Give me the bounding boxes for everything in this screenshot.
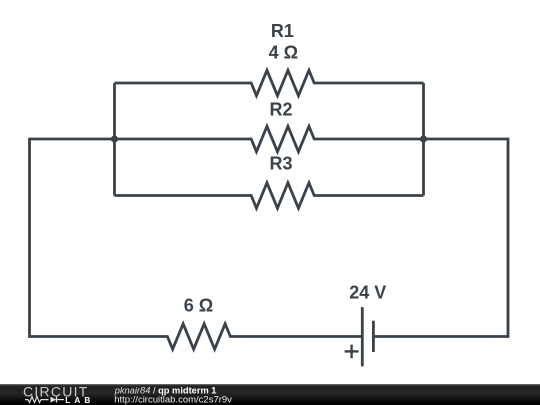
svg-text:R3: R3 — [269, 154, 292, 174]
svg-text:LAB: LAB — [65, 396, 94, 405]
svg-text:24 V: 24 V — [349, 283, 386, 303]
svg-text:4 Ω: 4 Ω — [269, 43, 298, 63]
svg-text:6 Ω: 6 Ω — [184, 296, 213, 316]
svg-text:R1: R1 — [271, 21, 294, 41]
svg-text:http://circuitlab.com/c2s7r9v: http://circuitlab.com/c2s7r9v — [114, 394, 232, 405]
svg-text:R2: R2 — [269, 99, 292, 119]
